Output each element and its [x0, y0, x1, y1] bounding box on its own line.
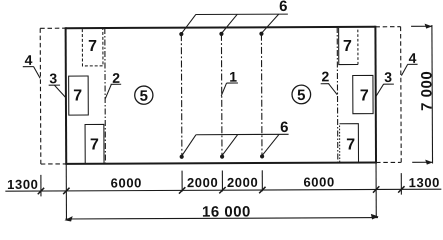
- svg-text:6000: 6000: [303, 174, 334, 189]
- label 6 top diagonal to dot B: [221, 14, 237, 33]
- tick slash at col A: [179, 187, 185, 193]
- label 4 left underline: [23, 66, 34, 68]
- label 6 top diagonal to dot C: [261, 14, 278, 33]
- left partition axis dash-dot: [104, 28, 107, 164]
- tick slash at 401: [398, 186, 404, 192]
- bottom node dot B: [220, 154, 224, 158]
- label 6 bottom leader horizontal: [196, 133, 288, 135]
- tick slash at col B: [219, 187, 225, 193]
- witness line col C: [261, 170, 263, 191]
- closet box 7 bottom-left: [85, 124, 104, 163]
- witness line col B: [221, 170, 223, 191]
- building right wall: [374, 26, 377, 164]
- svg-text:2000: 2000: [227, 175, 258, 190]
- bottom node dot C: [260, 154, 264, 158]
- 7000 top arrow: [425, 24, 433, 29]
- label 4 right underline: [407, 63, 417, 65]
- closet box 7 top-left (dashed): [82, 29, 103, 66]
- svg-text:1: 1: [229, 69, 237, 85]
- label 2 left underline: [111, 83, 121, 85]
- label 1 leader: [221, 83, 226, 96]
- svg-text:7: 7: [346, 136, 355, 153]
- label 2 right leader: [329, 84, 338, 95]
- svg-text:3: 3: [49, 70, 57, 86]
- top node dot B: [219, 32, 223, 36]
- closet box 7 bottom-right: [339, 124, 341, 162]
- dashed top-right overhang stub: [375, 26, 400, 28]
- column axis line B (center): [220, 34, 223, 157]
- label 6 top leader horizontal: [196, 13, 288, 15]
- dashed bottom-right overhang stub: [376, 161, 401, 163]
- bottom node dot A: [180, 155, 184, 159]
- dimension row 2 line (16 000): [65, 218, 377, 219]
- svg-text:7 000: 7 000: [418, 71, 435, 111]
- witness line right wall to rows: [375, 163, 377, 217]
- svg-text:6000: 6000: [111, 175, 142, 190]
- outer overhang dashed left vertical (axis): [39, 28, 42, 164]
- top node dot C: [259, 32, 263, 36]
- svg-text:7: 7: [88, 38, 97, 55]
- svg-text:2000: 2000: [187, 175, 218, 190]
- label 6 top diagonal to dot A: [181, 15, 196, 34]
- svg-text:1300: 1300: [409, 175, 440, 190]
- building outline bottom edge: [66, 162, 376, 163]
- top node dot A: [179, 32, 183, 36]
- column axis line A (left of center): [180, 34, 183, 157]
- tick slash at right wall: [373, 186, 379, 192]
- dashed top-left overhang stub: [40, 27, 65, 29]
- svg-text:5: 5: [140, 88, 148, 105]
- dashed bottom-left overhang stub: [41, 163, 66, 165]
- witness line at axis 401: [400, 173, 402, 194]
- label 1 underline: [227, 82, 238, 84]
- label 2 left leader: [105, 84, 111, 98]
- closet box 7 mid-left (solid): [69, 76, 89, 115]
- witness line left wall to rows: [65, 165, 67, 219]
- tick slash at col C: [259, 187, 265, 193]
- 7000 bottom extension stub: [412, 161, 432, 163]
- right partition axis dash-dot: [336, 27, 339, 163]
- svg-text:7: 7: [90, 136, 99, 153]
- witness line col A: [181, 171, 183, 192]
- 7000 bottom arrow: [425, 160, 433, 165]
- label 4 left leader: [34, 67, 41, 79]
- svg-text:4: 4: [25, 52, 33, 68]
- svg-text:1300: 1300: [7, 177, 38, 192]
- outer overhang dashed right vertical (axis): [400, 27, 403, 163]
- svg-text:7: 7: [73, 88, 82, 105]
- svg-text:3: 3: [384, 69, 392, 85]
- svg-text:7: 7: [360, 87, 369, 104]
- label 3 left leader: [54, 85, 66, 98]
- svg-text:6: 6: [279, 0, 287, 15]
- svg-text:2: 2: [112, 70, 120, 86]
- dimension row 1 line: [5, 189, 441, 191]
- label 3 right underline: [383, 83, 393, 85]
- label 4 right leader: [401, 64, 407, 75]
- tick slash at 40.6: [38, 188, 44, 194]
- label 2 right underline: [321, 83, 329, 85]
- circled 5 right circle: [292, 85, 311, 104]
- witness line at axis 40.6: [40, 175, 42, 196]
- circled 5 left circle: [135, 86, 153, 104]
- tick slash at 66: [63, 188, 69, 194]
- svg-text:7: 7: [343, 38, 352, 55]
- label 3 right leader: [376, 84, 384, 96]
- label 6 bottom diagonal to dot B: [222, 135, 238, 156]
- svg-text:6: 6: [280, 119, 288, 136]
- column axis line C (right of center): [260, 34, 263, 157]
- label 6 bottom diagonal to dot C: [262, 134, 279, 155]
- label 3 left underline: [49, 84, 60, 86]
- label 6 bottom diagonal to dot A: [181, 135, 196, 156]
- row 2 left arrow: [64, 216, 72, 221]
- 7000 top extension stub: [411, 25, 432, 27]
- 7000 dim vertical line: [431, 25, 434, 163]
- row 2 right arrow: [371, 214, 379, 220]
- closet box 7 top-right: [339, 28, 358, 65]
- building outline top edge: [66, 27, 376, 28]
- svg-text:4: 4: [409, 50, 417, 66]
- svg-text:2: 2: [321, 68, 329, 84]
- closet box 7 mid-right (solid): [353, 75, 373, 113]
- svg-text:5: 5: [297, 87, 305, 104]
- building left wall: [65, 27, 68, 165]
- svg-text:16 000: 16 000: [202, 203, 251, 220]
